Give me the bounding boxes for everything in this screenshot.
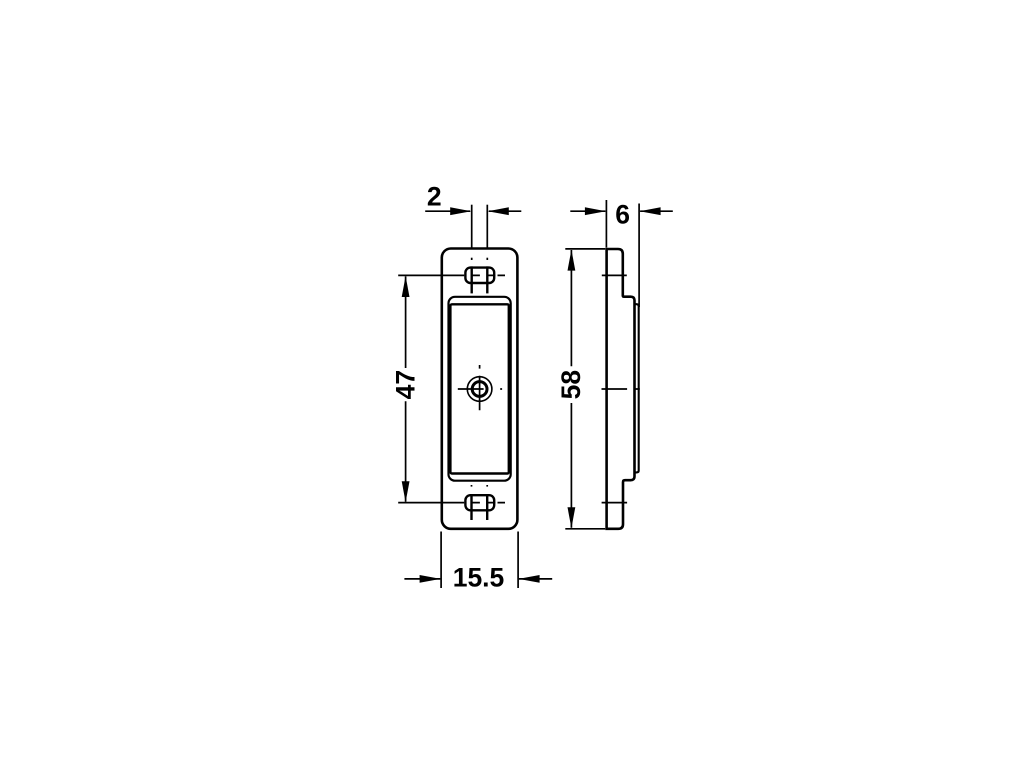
bottom mounting slot: obround — [465, 495, 494, 510]
side view: protruding face plate — [635, 304, 639, 472]
top slot centerline dot left — [471, 258, 473, 260]
dim 2: extension line left — [471, 205, 473, 250]
dim 15.5: extension line left — [440, 532, 442, 589]
side view: bottom slot centerline tick — [602, 502, 628, 504]
dim 2: left dimension line — [425, 210, 470, 212]
dim 58: bottom arrowhead — [568, 507, 576, 528]
dim 6: right arrowhead — [640, 207, 661, 215]
dim 15.5: extension line right — [517, 532, 519, 589]
svg-text:15.5: 15.5 — [453, 563, 505, 593]
top slot inner edge right — [486, 266, 488, 293]
bottom slot centerline dot right — [486, 485, 488, 487]
screw hole horizontal centerline — [458, 388, 502, 390]
dim 6: left arrowhead — [585, 207, 606, 215]
front view: magnet insert face — [450, 304, 508, 473]
dim 15.5: left arrowhead — [420, 575, 441, 583]
dim 6: extension line right — [638, 204, 640, 308]
center screw hole outer circle — [467, 377, 492, 402]
top mounting slot: obround — [465, 268, 494, 283]
side view: middle centerline tick — [602, 388, 640, 390]
dim 47: top arrowhead — [402, 276, 410, 297]
front view: outer housing body — [442, 249, 518, 529]
bottom slot inner edge left — [470, 494, 472, 520]
dim 6: right dimension line — [640, 210, 673, 212]
center screw hole inner circle — [472, 382, 487, 397]
bottom slot horizontal centerline — [398, 502, 505, 504]
side view: top slot centerline tick — [602, 274, 627, 276]
dim 58: dimension line — [570, 250, 572, 528]
dim 2: extension line right — [486, 205, 488, 250]
top slot horizontal centerline — [398, 274, 505, 276]
dim 2: left arrowhead — [450, 207, 471, 215]
svg-text:2: 2 — [427, 181, 442, 211]
bottom slot centerline dot left — [471, 485, 473, 487]
side view: housing profile — [607, 249, 635, 529]
dim 47: bottom arrowhead — [402, 481, 410, 502]
svg-text:58: 58 — [556, 370, 586, 399]
dim 2: right arrowhead — [488, 207, 509, 215]
bottom slot inner edge right — [486, 494, 488, 520]
dim 15.5: right dimension line — [519, 578, 552, 580]
dim 15.5: right arrowhead — [519, 575, 540, 583]
dim 47: dimension line — [405, 276, 407, 501]
dim 6: extension line left — [605, 200, 607, 248]
top slot centerline dot right — [486, 258, 488, 260]
svg-text:6: 6 — [615, 200, 630, 230]
dim 2: right dimension line — [489, 210, 522, 212]
dim 58: top arrowhead — [568, 250, 576, 271]
front view: raised face lining — [449, 297, 511, 481]
dim 58: extension line top — [565, 248, 605, 250]
dim 6: left dimension line — [570, 210, 605, 212]
dim 58: extension line bottom — [565, 528, 605, 530]
dim 15.5: left dimension line — [404, 578, 440, 580]
svg-text:47: 47 — [390, 370, 420, 399]
screw hole vertical centerline — [479, 365, 481, 410]
top slot inner edge left — [471, 266, 473, 293]
